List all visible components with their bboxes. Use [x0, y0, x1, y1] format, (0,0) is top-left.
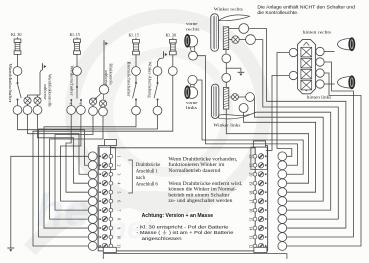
label Winkerschalter: [69, 66, 74, 97]
wire cluster left1 to term22: [277, 53, 292, 157]
svg-text:Wenn Drahtbrücke vorhanden,: Wenn Drahtbrücke vorhanden,: [168, 157, 237, 162]
wire cluster left2 to tab: [266, 76, 289, 151]
switch Warnblinkschalter: [13, 75, 22, 114]
svg-text:angeschlossen: angeschlossen: [142, 236, 182, 241]
left terminal numbers 1-11: [116, 156, 121, 249]
lamp vorne rechts: [185, 34, 198, 47]
left terminal strip: [98, 146, 113, 249]
winker links arm blade: [219, 114, 251, 119]
wire fuse4 to term11: [33, 75, 173, 246]
svg-text:Winkerschalter: Winkerschalter: [69, 66, 74, 97]
label hinten links: [307, 94, 332, 99]
svg-text:wahlweise: wahlweise: [43, 84, 47, 100]
svg-text:4: 4: [116, 182, 121, 184]
label vorne rechts: [186, 21, 200, 31]
right terminal strip: [253, 146, 268, 249]
text Drahtbruecke Anschluss: [136, 163, 161, 188]
svg-text:R: R: [68, 103, 71, 105]
wire winker L to term6: [61, 114, 89, 201]
svg-text:können die Winker im Normal-: können die Winker im Normal-: [168, 188, 236, 193]
svg-text:1: 1: [116, 156, 121, 158]
svg-text:Kl. 15: Kl. 15: [70, 32, 80, 37]
left strip foot: [103, 247, 116, 252]
svg-text:18: 18: [249, 190, 254, 194]
wire coil bottom: [225, 50, 227, 54]
svg-text:Bremslichtschalter: Bremslichtschalter: [126, 62, 131, 98]
svg-text:22: 22: [249, 155, 254, 159]
svg-text:2: 2: [116, 164, 121, 166]
connector blink a: [89, 105, 98, 115]
svg-text:Warnblinkschalter: Warnblinkschalter: [8, 64, 13, 104]
wire warnblink lamp b to term4: [38, 114, 89, 183]
svg-text:nach: nach: [136, 176, 146, 181]
lamp Warnblinkkontrolle b: [34, 97, 41, 104]
svg-text:21: 21: [249, 163, 254, 167]
wire cluster right2 to term13: [287, 62, 354, 237]
svg-text:die Kontrolleuchte.: die Kontrolleuchte.: [257, 10, 298, 15]
svg-text:rechts: rechts: [186, 26, 200, 31]
connector below fuse 3: [132, 67, 141, 76]
right terminal numbers 22-12: [249, 155, 254, 249]
connector cluster right 3: [316, 69, 324, 77]
connector cluster right 2: [316, 58, 324, 66]
label Blinkkontrolle: [104, 64, 113, 86]
right strip relay box: [251, 147, 267, 169]
svg-text:13: 13: [249, 235, 254, 239]
svg-text:11: 11: [116, 244, 121, 248]
winker links arm: [211, 84, 218, 118]
fuse Kl. 15 (winker feed): [70, 32, 81, 66]
ground (Winker-Abschaltung): [164, 51, 168, 57]
svg-text:5: 5: [116, 191, 121, 193]
right strip top tab: [254, 141, 266, 147]
svg-text:16: 16: [249, 208, 254, 212]
svg-text:Winker-Abschaltung: Winker-Abschaltung: [147, 62, 152, 98]
lamp Blinkkontrolle b: [99, 100, 106, 107]
note line 2: [257, 10, 298, 15]
label Bremslichtschalter: [126, 62, 131, 98]
svg-text:Kl. 30: Kl. 30: [11, 32, 21, 37]
connector winker L: [77, 106, 86, 115]
wire vorne rechts to term21: [197, 56, 297, 166]
label Warnblinkkontrolle: [43, 74, 52, 107]
svg-text:Kl. 30: Kl. 30: [166, 33, 176, 38]
connector cluster left 1: [289, 48, 297, 56]
ground (Warnblink control): [43, 63, 47, 69]
wire ground bus row1: [11, 156, 89, 247]
wire winker rechts top to term14: [249, 29, 346, 229]
ground (Blink control): [104, 40, 108, 46]
lamp vorne links: [185, 84, 198, 99]
connector winker R: [67, 106, 76, 115]
wire warnblink switch to term2: [18, 114, 89, 165]
connector winker links top: [222, 73, 231, 82]
connector cluster right 1: [316, 47, 324, 55]
wire blink lamp b to term8: [50, 116, 104, 219]
connector lamp a: [23, 104, 32, 114]
connector winker rechts bottom: [222, 54, 231, 63]
svg-text:17: 17: [249, 199, 254, 203]
winker rechts coil: [223, 27, 228, 50]
terminal mark R: [68, 103, 71, 105]
label Winker-Abschaltung: [147, 62, 152, 98]
text wenn entfernt: [168, 182, 242, 204]
svg-text:20: 20: [249, 172, 254, 176]
lamp winker rechts: [229, 36, 239, 43]
svg-text:Kl. 15: Kl. 15: [129, 33, 139, 38]
svg-text:- Kl. 30 entspricht - Pol der: - Kl. 30 entspricht - Pol der Batterie: [136, 224, 228, 229]
svg-text:Winker links: Winker links: [213, 122, 240, 127]
wire to lamp b: [102, 94, 105, 99]
wire winker rechts lamp to term15: [255, 40, 338, 219]
wire abschalt switch to term10: [39, 115, 158, 237]
svg-text:Die Anlage enthält NICHT den S: Die Anlage enthält NICHT den Schalter un…: [257, 5, 355, 10]
wire winker links arm to term16: [251, 112, 331, 210]
right connection circles: [278, 152, 287, 251]
winker rechts arm blade: [219, 15, 250, 21]
wire winker links mid to term18: [244, 113, 316, 193]
label vorne links: [186, 100, 198, 110]
left connection circles: [88, 152, 97, 251]
svg-text:6: 6: [116, 200, 121, 202]
text wenn vorhanden: [168, 157, 237, 174]
connector winker rechts top: [239, 24, 249, 34]
svg-text:15: 15: [249, 217, 254, 221]
left strip relay box: [99, 147, 115, 169]
svg-text:12: 12: [249, 244, 254, 248]
connector below fuse 1: [13, 67, 22, 76]
svg-text:wahlweise: wahlweise: [104, 70, 108, 86]
wire brems switch to term9: [44, 115, 136, 228]
bottom bus wire: [103, 254, 287, 259]
svg-text:Anschluß 1: Anschluß 1: [136, 170, 159, 175]
svg-text:funktionieren Winker im: funktionieren Winker im: [168, 163, 224, 168]
wire winker links lamp to term17: [254, 97, 323, 201]
wire junction to ground: [226, 63, 241, 73]
wire cluster right3 to term12: [287, 73, 361, 246]
svg-text:Blinkkontrolle: Blinkkontrolle: [108, 64, 112, 86]
svg-text:Warnblinkkontrolle: Warnblinkkontrolle: [48, 74, 52, 107]
wire warnblink lamp a to term3: [28, 114, 89, 174]
svg-text:19: 19: [249, 181, 254, 185]
svg-text:8: 8: [116, 218, 121, 220]
svg-text:betrieb mit einem Schalter: betrieb mit einem Schalter: [168, 193, 229, 198]
svg-text:Anschluß 6: Anschluß 6: [136, 183, 159, 188]
svg-text:zu- und abgeschaltet werden: zu- und abgeschaltet werden: [168, 199, 233, 204]
connector lamp b: [33, 104, 42, 114]
svg-text:3: 3: [116, 173, 121, 175]
fuse Kl. 30 (lamp feed): [166, 33, 177, 67]
connector vorne rechts: [189, 46, 198, 60]
note line 1: [257, 5, 355, 10]
winker rechts arm: [211, 14, 219, 51]
left strip top tab: [105, 140, 117, 146]
svg-text:7: 7: [116, 209, 121, 211]
side lamp hinten rechts: [337, 38, 355, 51]
wire winker links coil to term19: [226, 109, 308, 183]
connector below fuse 2: [73, 67, 82, 76]
label Warnblinkschalter: [8, 64, 13, 104]
label hinten rechts: [303, 30, 332, 35]
connector below fuse 4: [168, 67, 177, 76]
terminal mark L: [78, 103, 81, 105]
flasher control box: [98, 148, 267, 251]
side lamp hinten links: [337, 76, 355, 89]
lamp vorne links connector: [188, 75, 197, 84]
rear lamp cluster: [298, 39, 316, 93]
wire gnd to lamps: [28, 70, 43, 97]
switch Winker-Abschaltung: [153, 67, 162, 115]
ground (winker): [238, 72, 245, 76]
svg-text:hinten links: hinten links: [307, 94, 332, 99]
svg-text:Winker rechts: Winker rechts: [214, 7, 243, 12]
lamp winker links: [230, 94, 239, 101]
wire cluster to side lamp 2: [324, 83, 334, 85]
ground (battery minus): [7, 248, 14, 252]
wire blink lamp a to term7: [55, 115, 93, 210]
lamp Warnblinkkontrolle a: [24, 97, 31, 104]
wire vorne links to term20: [197, 80, 303, 174]
wire winker R to term5: [66, 114, 88, 192]
wire gnd down: [103, 47, 105, 85]
svg-text:- Masse ( ⏚ ) ist am + Pol der: - Masse ( ⏚ ) ist am + Pol der Batterie: [136, 229, 233, 235]
bracket Anschluss 1-6: [128, 160, 132, 193]
wire cluster to side lamp 1: [324, 51, 334, 53]
svg-text:10: 10: [116, 235, 121, 239]
switch Winkerschalter: [70, 75, 82, 105]
wire to coil: [225, 82, 227, 87]
svg-text:Achtung: Version + an Masse: Achtung: Version + an Masse: [142, 213, 214, 219]
svg-text:14: 14: [249, 226, 254, 230]
wire to lamp a: [95, 93, 101, 99]
svg-text:9: 9: [116, 227, 121, 229]
svg-text:Wenn Drahtbrücke entfernt wird: Wenn Drahtbrücke entfernt wird,: [168, 182, 242, 187]
right strip foot: [254, 247, 267, 252]
text Kl.30 note: [136, 224, 228, 229]
text Masse note: [136, 229, 233, 235]
text Achtung: [142, 213, 214, 219]
text angeschlossen: [142, 236, 182, 241]
svg-text:hinten rechts: hinten rechts: [303, 30, 332, 35]
label Winker rechts: [214, 7, 243, 12]
connector cluster left 2: [289, 71, 297, 79]
winker links coil: [223, 87, 228, 109]
switch Bremslichtschalter: [132, 75, 141, 115]
connector cluster right 4: [316, 80, 324, 88]
svg-text:Normalbetrieb dauernd: Normalbetrieb dauernd: [168, 169, 221, 174]
wire gnd to switch: [158, 58, 164, 67]
fuse Kl. 30 (hazard feed): [11, 32, 21, 66]
label Winker links: [213, 122, 240, 127]
fuse Kl. 15 (brake feed): [129, 33, 140, 67]
connector blink control: [99, 85, 108, 94]
lamp Blinkkontrolle a: [89, 98, 96, 105]
wire coil to connector: [229, 28, 239, 30]
connector winker links mid: [239, 104, 248, 113]
connector blink b: [99, 107, 108, 116]
connector winker rechts lamp: [239, 35, 255, 45]
svg-text:Drahtbrücke: Drahtbrücke: [136, 163, 161, 168]
connector winker links lamp: [238, 93, 254, 102]
svg-text:links: links: [186, 105, 198, 110]
